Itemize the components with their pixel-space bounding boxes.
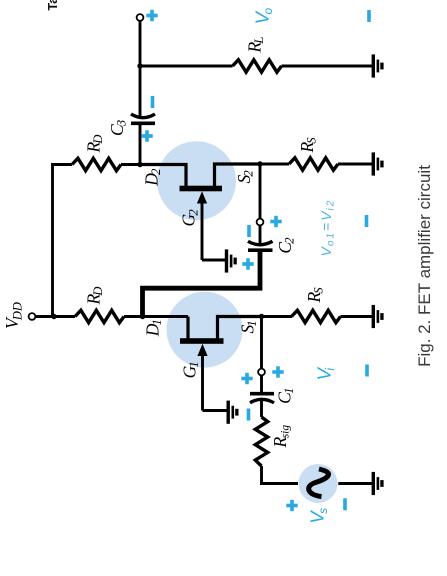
- svg-text:C2: C2: [275, 237, 297, 253]
- capacitor C3 curved plate: [131, 114, 155, 118]
- svg-text:VDD: VDD: [2, 302, 25, 329]
- svg-text:RS: RS: [304, 287, 326, 304]
- minus at C3: [151, 96, 155, 108]
- svg-text:G1: G1: [179, 361, 201, 378]
- wire: RD1 bottom to node D1: [124, 315, 188, 318]
- wire: S2 lead of Q2: [215, 164, 261, 188]
- wire: RL junction down to RL: [140, 65, 233, 68]
- terminal Vo: [137, 14, 144, 21]
- resistor RS2: [289, 158, 338, 170]
- wire: G2 down to ground: [202, 259, 226, 262]
- wire: RD2 bottom to node D2: [121, 163, 142, 166]
- wire: S1 lead of Q1: [218, 317, 262, 341]
- wire: Rsig to Vs: [262, 466, 299, 484]
- terminal VDD: [29, 313, 36, 320]
- transistor Q1 gate arrow: [201, 355, 204, 411]
- svg-text:C1: C1: [275, 388, 297, 404]
- plus at C3: [141, 130, 152, 141]
- plus at C2: [242, 258, 253, 269]
- capacitor C1 curved plate: [250, 399, 274, 403]
- svg-text:C3: C3: [107, 120, 129, 136]
- wire: RS1 to ground: [341, 315, 373, 318]
- capacitor C3 straight plate: [131, 121, 155, 125]
- svg-text:Vs: Vs: [307, 508, 330, 524]
- resistor RD1: [75, 310, 124, 322]
- ground at RS1: [372, 305, 384, 328]
- svg-text:Rsig: Rsig: [270, 425, 292, 449]
- wire: node D1 to coupling elbow (thick): [143, 251, 261, 318]
- minus at Vs: [343, 498, 347, 510]
- minus at Vo1 port: [365, 215, 369, 227]
- terminal node Vo1=Vi2: [257, 219, 264, 226]
- wire: Vi terminal to C1: [260, 375, 263, 392]
- wire: D1 lead of Q1: [186, 317, 189, 341]
- wire: node D2 to C3: [139, 125, 142, 165]
- wire: G1 down to ground: [203, 409, 228, 412]
- wire: RL to ground: [282, 65, 373, 68]
- svg-text:RS: RS: [297, 137, 319, 154]
- plus at Vo terminal: [146, 10, 157, 21]
- minus at Vo port: [367, 10, 371, 22]
- wire: node S1 to Vi terminal: [260, 317, 263, 369]
- plus at C1: [241, 373, 252, 384]
- svg-text:Vi: Vi: [314, 367, 337, 381]
- plus at Vi terminal: [272, 366, 283, 377]
- svg-text:RD: RD: [84, 287, 106, 306]
- capacitor C2 curved plate: [248, 241, 273, 244]
- minus at C2: [247, 225, 251, 237]
- wire: terminal to node S2: [259, 164, 262, 219]
- node RL junction dot: [137, 63, 142, 68]
- svg-text:Vo: Vo: [252, 7, 275, 24]
- resistor RL: [233, 60, 282, 72]
- node S2 junction dot: [257, 161, 262, 166]
- minus at Vi port: [365, 365, 369, 377]
- ground at Vs: [372, 472, 384, 495]
- wire: Vs to ground: [338, 482, 372, 485]
- resistor RS1: [292, 310, 341, 322]
- wire: C1 to Rsig: [260, 399, 263, 417]
- wire: C3 to RL junction and Vo terminal: [139, 21, 142, 118]
- svg-text:Vo1=Vi2: Vo1=Vi2: [318, 199, 337, 257]
- svg-text:D1: D1: [143, 319, 165, 337]
- node S1 junction dot: [259, 314, 264, 319]
- transistor Q2 gate arrow: [201, 203, 204, 261]
- capacitor C1 straight plate: [250, 392, 274, 396]
- plus at Vo1 terminal: [270, 216, 281, 227]
- wire: D2 lead of Q2: [142, 165, 187, 188]
- terminal Vi: [258, 369, 265, 376]
- source Vs sine symbol: [309, 469, 329, 497]
- ground at RL: [372, 54, 384, 77]
- wire: VDD terminal to junction and down to RD1: [36, 315, 76, 318]
- svg-text:S2: S2: [234, 170, 256, 183]
- wire: RS2 to ground: [338, 163, 372, 166]
- ground at RS2: [372, 152, 384, 175]
- transistor Q1 channel bar: [180, 338, 224, 344]
- wire: node S2 to RS2: [260, 163, 289, 166]
- source Vs highlight circle: [299, 464, 338, 503]
- ground at G1: [227, 401, 239, 424]
- wire: node S1 to RS1: [262, 315, 293, 318]
- transistor Q2 highlight circle: [157, 141, 236, 220]
- ground at G2: [225, 249, 237, 272]
- minus at C1: [247, 409, 251, 421]
- node D2 junction dot: [137, 162, 142, 167]
- resistor RD2: [72, 158, 121, 170]
- svg-text:RL: RL: [245, 37, 267, 54]
- node VDD junction dot: [51, 314, 56, 319]
- plus at Vs: [286, 500, 297, 511]
- svg-text:D2: D2: [142, 169, 164, 187]
- wire: C2 to terminal Vo1: [259, 225, 262, 244]
- svg-text:Fig. 2. FET amplifier circuit: Fig. 2. FET amplifier circuit: [415, 165, 434, 367]
- node D1 junction dot: [140, 314, 145, 319]
- wire: VDD rail to RD2 column: [53, 165, 73, 317]
- capacitor C2 straight plate: [248, 248, 273, 252]
- svg-text:RD: RD: [84, 135, 106, 154]
- svg-text:Tab: Tab: [46, 0, 60, 11]
- transistor Q1 highlight circle: [167, 292, 243, 368]
- transistor Q2 channel bar: [180, 186, 223, 192]
- resistor Rsig: [255, 417, 267, 466]
